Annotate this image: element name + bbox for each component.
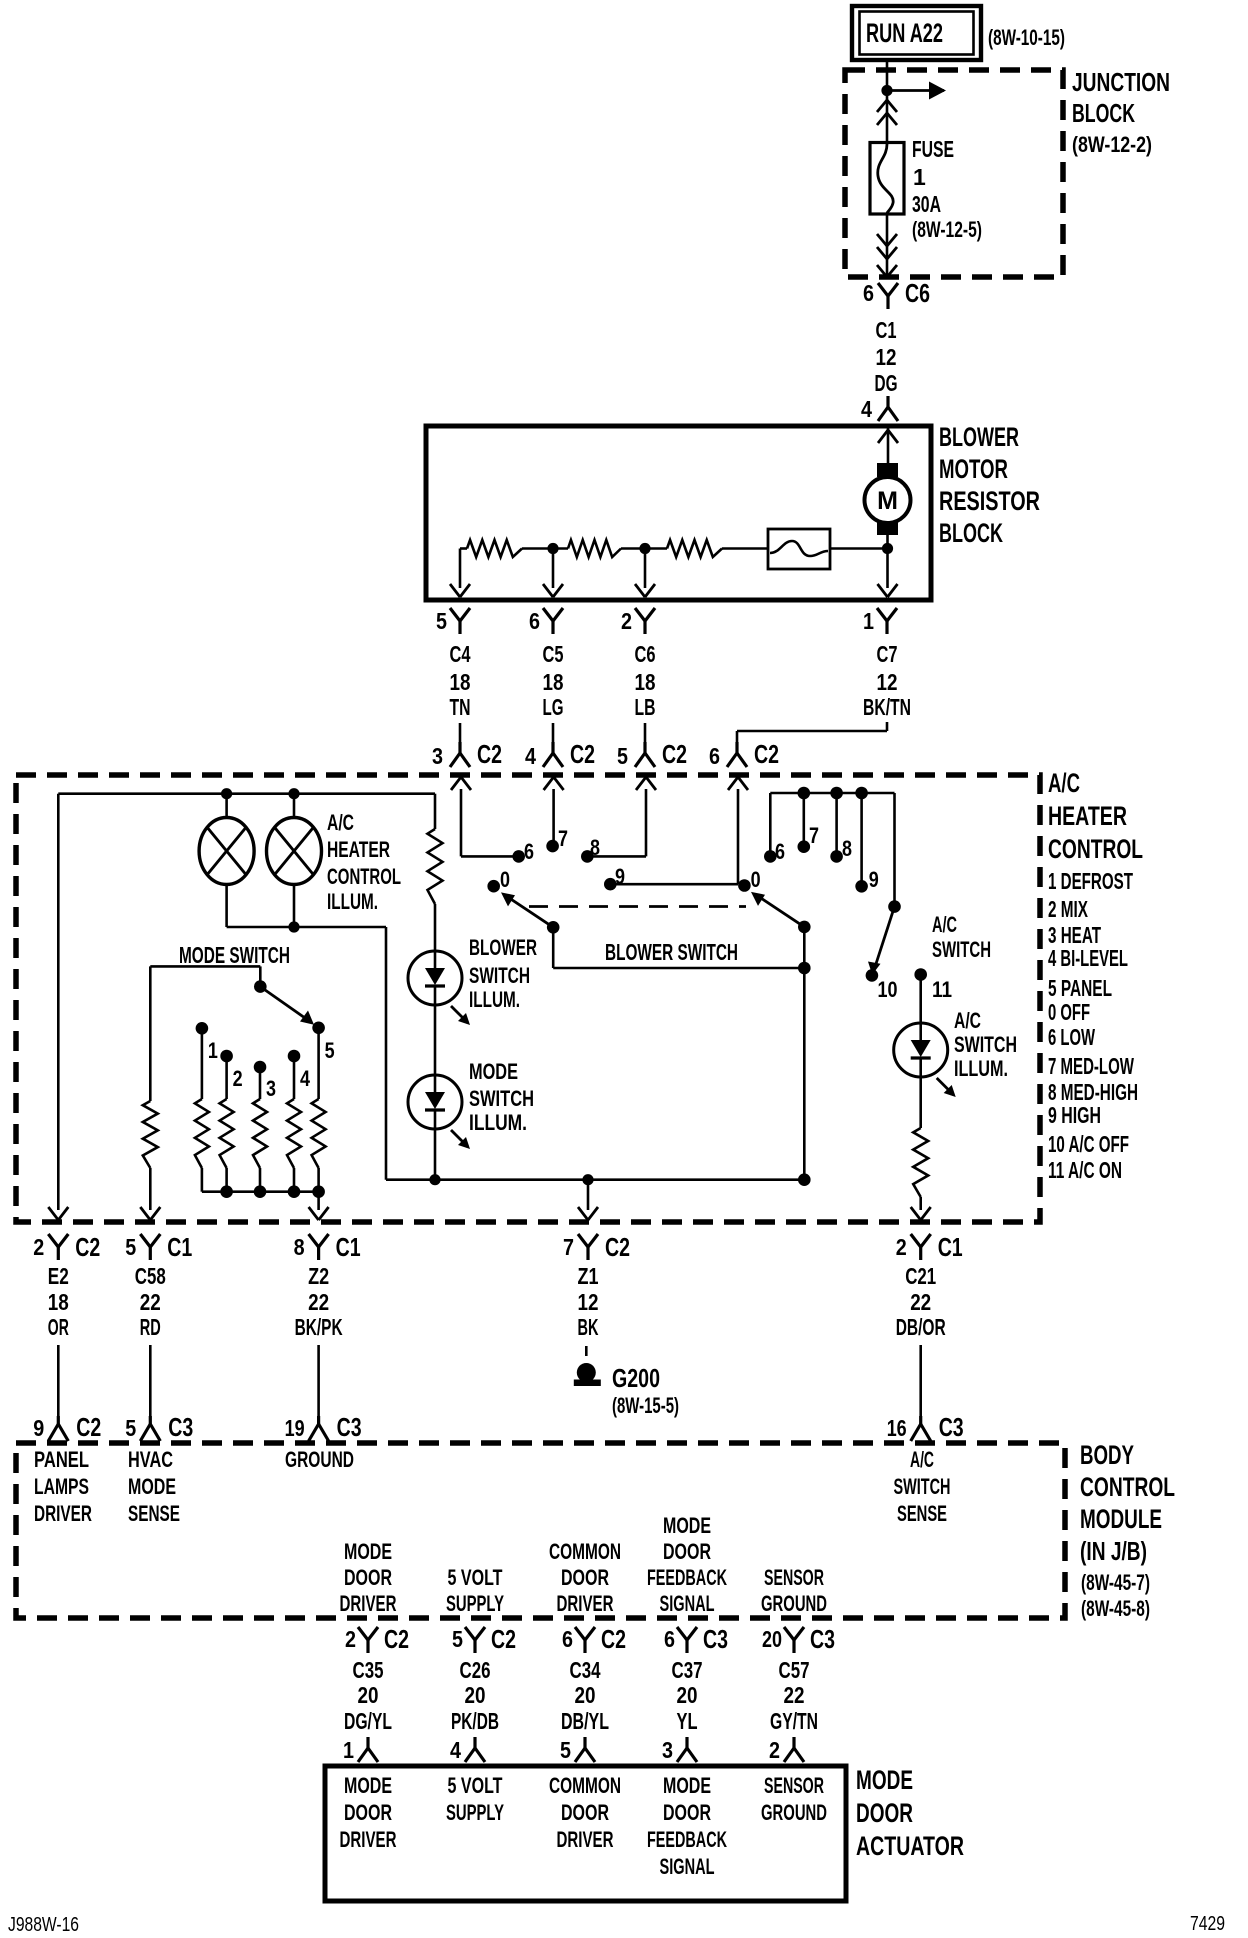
- svg-text:4: 4: [525, 743, 536, 769]
- svg-text:12: 12: [877, 669, 898, 695]
- svg-text:(8W-12-5): (8W-12-5): [912, 217, 982, 242]
- svg-text:A/C: A/C: [910, 1447, 934, 1472]
- svg-text:C34: C34: [570, 1657, 601, 1683]
- svg-text:5: 5: [560, 1737, 571, 1763]
- svg-text:11: 11: [932, 977, 952, 1002]
- svg-text:DRIVER: DRIVER: [340, 1827, 397, 1852]
- svg-text:C2: C2: [662, 739, 687, 769]
- svg-text:BLOWER: BLOWER: [469, 935, 537, 960]
- svg-text:DB/OR: DB/OR: [896, 1314, 946, 1340]
- svg-text:FEEDBACK: FEEDBACK: [647, 1827, 727, 1852]
- svg-text:ILLUM.: ILLUM.: [469, 1110, 527, 1135]
- svg-text:4: 4: [861, 396, 872, 422]
- svg-text:CONTROL: CONTROL: [327, 864, 401, 889]
- svg-text:E2: E2: [48, 1263, 69, 1289]
- svg-text:1: 1: [863, 608, 874, 634]
- svg-text:DG/YL: DG/YL: [344, 1708, 392, 1734]
- svg-text:ACTUATOR: ACTUATOR: [856, 1831, 964, 1861]
- svg-text:ILLUM.: ILLUM.: [954, 1056, 1008, 1081]
- svg-text:7: 7: [809, 823, 819, 848]
- svg-text:MODE SWITCH: MODE SWITCH: [179, 942, 290, 968]
- svg-text:JUNCTION: JUNCTION: [1072, 67, 1170, 97]
- svg-text:DB/YL: DB/YL: [561, 1708, 609, 1734]
- svg-text:HEATER: HEATER: [327, 837, 390, 862]
- svg-text:SUPPLY: SUPPLY: [446, 1800, 504, 1825]
- svg-text:5: 5: [617, 743, 628, 769]
- svg-text:C57: C57: [779, 1657, 810, 1683]
- svg-text:2: 2: [621, 608, 632, 634]
- svg-text:8: 8: [590, 835, 600, 860]
- svg-text:SIGNAL: SIGNAL: [660, 1854, 715, 1879]
- svg-text:9 HIGH: 9 HIGH: [1048, 1102, 1101, 1128]
- svg-text:12: 12: [578, 1289, 599, 1315]
- svg-text:1: 1: [208, 1038, 218, 1063]
- svg-text:LG: LG: [543, 694, 564, 720]
- svg-text:C2: C2: [491, 1624, 516, 1654]
- svg-text:A/C: A/C: [932, 912, 957, 937]
- svg-text:C6: C6: [905, 278, 930, 308]
- svg-text:MODE: MODE: [128, 1474, 176, 1499]
- svg-text:GROUND: GROUND: [761, 1800, 827, 1825]
- svg-text:DOOR: DOOR: [344, 1800, 392, 1825]
- svg-text:C2: C2: [605, 1232, 630, 1262]
- svg-text:SENSE: SENSE: [897, 1501, 947, 1526]
- svg-text:5 VOLT: 5 VOLT: [448, 1773, 503, 1798]
- svg-text:SUPPLY: SUPPLY: [446, 1591, 504, 1616]
- svg-text:BK: BK: [578, 1314, 599, 1340]
- svg-text:C1: C1: [336, 1232, 361, 1262]
- svg-text:FUSE: FUSE: [912, 136, 954, 162]
- svg-text:SENSE: SENSE: [128, 1501, 180, 1526]
- svg-text:DRIVER: DRIVER: [557, 1827, 614, 1852]
- svg-text:BLOWER SWITCH: BLOWER SWITCH: [605, 939, 738, 965]
- svg-text:20: 20: [358, 1682, 379, 1708]
- svg-text:COMMON: COMMON: [549, 1539, 621, 1564]
- svg-text:10: 10: [878, 977, 898, 1002]
- svg-text:HEATER: HEATER: [1048, 801, 1127, 831]
- svg-text:C3: C3: [810, 1624, 835, 1654]
- svg-text:LAMPS: LAMPS: [34, 1474, 89, 1499]
- svg-text:C3: C3: [168, 1412, 193, 1442]
- svg-text:SWITCH: SWITCH: [469, 963, 530, 988]
- svg-text:BK/PK: BK/PK: [295, 1314, 343, 1340]
- svg-text:C1: C1: [938, 1232, 963, 1262]
- svg-text:SENSOR: SENSOR: [764, 1773, 824, 1798]
- svg-text:5: 5: [325, 1038, 335, 1063]
- svg-text:FEEDBACK: FEEDBACK: [647, 1565, 727, 1590]
- svg-text:M: M: [877, 487, 898, 515]
- svg-text:20: 20: [465, 1682, 486, 1708]
- svg-text:DOOR: DOOR: [561, 1565, 609, 1590]
- svg-text:C2: C2: [384, 1624, 409, 1654]
- svg-text:C6: C6: [635, 641, 656, 667]
- svg-text:BLOWER: BLOWER: [939, 422, 1019, 452]
- svg-text:MODE: MODE: [344, 1539, 392, 1564]
- svg-text:(8W-10-15): (8W-10-15): [988, 25, 1065, 50]
- svg-text:SWITCH: SWITCH: [894, 1474, 951, 1499]
- svg-text:SWITCH: SWITCH: [954, 1032, 1017, 1057]
- svg-text:DOOR: DOOR: [663, 1800, 711, 1825]
- svg-text:A/C: A/C: [1048, 768, 1080, 798]
- svg-text:20: 20: [677, 1682, 698, 1708]
- svg-text:DRIVER: DRIVER: [340, 1591, 397, 1616]
- svg-text:8: 8: [842, 836, 852, 861]
- svg-text:RD: RD: [140, 1314, 161, 1340]
- svg-text:A/C: A/C: [954, 1008, 981, 1033]
- svg-text:0 OFF: 0 OFF: [1048, 999, 1090, 1025]
- svg-text:C2: C2: [754, 739, 779, 769]
- svg-text:5: 5: [452, 1626, 463, 1652]
- svg-text:20: 20: [762, 1626, 782, 1652]
- svg-text:18: 18: [543, 669, 564, 695]
- svg-text:HVAC: HVAC: [128, 1447, 173, 1472]
- svg-text:9: 9: [33, 1415, 44, 1441]
- svg-text:GROUND: GROUND: [761, 1591, 827, 1616]
- svg-text:6: 6: [863, 280, 874, 306]
- svg-text:SWITCH: SWITCH: [469, 1086, 534, 1111]
- svg-text:DOOR: DOOR: [344, 1565, 392, 1590]
- svg-text:PANEL: PANEL: [34, 1447, 89, 1472]
- svg-text:DOOR: DOOR: [663, 1539, 711, 1564]
- svg-text:ILLUM.: ILLUM.: [327, 889, 378, 914]
- svg-text:6: 6: [775, 839, 785, 864]
- svg-text:SIGNAL: SIGNAL: [660, 1591, 715, 1616]
- svg-text:4: 4: [300, 1066, 311, 1091]
- svg-text:1: 1: [913, 164, 926, 190]
- svg-text:(8W-45-8): (8W-45-8): [1081, 1596, 1150, 1621]
- svg-text:BK/TN: BK/TN: [863, 694, 911, 720]
- svg-text:7 MED-LOW: 7 MED-LOW: [1048, 1053, 1134, 1079]
- svg-text:C35: C35: [353, 1657, 384, 1683]
- svg-text:ILLUM.: ILLUM.: [469, 987, 520, 1012]
- svg-text:C3: C3: [703, 1624, 728, 1654]
- svg-text:(8W-45-7): (8W-45-7): [1081, 1570, 1150, 1595]
- svg-text:CONTROL: CONTROL: [1080, 1472, 1175, 1502]
- svg-text:SENSOR: SENSOR: [764, 1565, 824, 1590]
- svg-text:C2: C2: [477, 739, 502, 769]
- svg-text:C2: C2: [570, 739, 595, 769]
- svg-text:1 DEFROST: 1 DEFROST: [1048, 868, 1133, 894]
- svg-text:C2: C2: [75, 1232, 100, 1262]
- svg-text:6: 6: [562, 1626, 573, 1652]
- svg-text:3: 3: [432, 743, 443, 769]
- svg-text:5 VOLT: 5 VOLT: [448, 1565, 503, 1590]
- svg-text:MODE: MODE: [856, 1765, 913, 1795]
- svg-text:18: 18: [635, 669, 656, 695]
- svg-text:(8W-12-2): (8W-12-2): [1072, 132, 1152, 157]
- svg-text:YL: YL: [677, 1708, 698, 1734]
- svg-text:GROUND: GROUND: [285, 1447, 354, 1472]
- svg-text:C21: C21: [905, 1263, 936, 1289]
- svg-text:20: 20: [575, 1682, 596, 1708]
- svg-text:12: 12: [876, 344, 897, 370]
- svg-text:7: 7: [558, 826, 568, 851]
- svg-text:C1: C1: [167, 1232, 192, 1262]
- svg-text:30A: 30A: [912, 191, 941, 217]
- svg-text:19: 19: [285, 1415, 305, 1441]
- svg-text:0: 0: [751, 867, 761, 892]
- svg-text:DG: DG: [875, 370, 898, 396]
- svg-text:5: 5: [125, 1234, 136, 1260]
- svg-text:LB: LB: [635, 694, 656, 720]
- svg-text:18: 18: [450, 669, 471, 695]
- svg-text:MODE: MODE: [663, 1773, 711, 1798]
- svg-text:C37: C37: [672, 1657, 703, 1683]
- svg-text:2: 2: [896, 1234, 907, 1260]
- svg-text:2: 2: [769, 1737, 780, 1763]
- svg-text:RESISTOR: RESISTOR: [939, 486, 1040, 516]
- svg-text:2 MIX: 2 MIX: [1048, 896, 1088, 922]
- svg-text:A/C: A/C: [327, 810, 354, 835]
- svg-text:5 PANEL: 5 PANEL: [1048, 975, 1112, 1001]
- svg-text:(8W-15-5): (8W-15-5): [612, 1393, 679, 1418]
- svg-text:C4: C4: [450, 641, 471, 667]
- svg-text:8: 8: [294, 1234, 305, 1260]
- svg-text:16: 16: [887, 1415, 907, 1441]
- svg-text:CONTROL: CONTROL: [1048, 834, 1143, 864]
- svg-text:22: 22: [308, 1289, 329, 1315]
- svg-text:J988W-16: J988W-16: [8, 1914, 79, 1936]
- svg-text:6: 6: [709, 743, 720, 769]
- svg-text:BODY: BODY: [1080, 1440, 1134, 1470]
- svg-text:DRIVER: DRIVER: [34, 1501, 92, 1526]
- svg-text:BLOCK: BLOCK: [939, 518, 1003, 548]
- svg-text:7429: 7429: [1190, 1913, 1225, 1935]
- svg-text:Z1: Z1: [578, 1263, 599, 1289]
- svg-text:3: 3: [266, 1076, 276, 1101]
- svg-text:0: 0: [500, 867, 510, 892]
- svg-text:C7: C7: [877, 641, 898, 667]
- svg-text:22: 22: [910, 1289, 931, 1315]
- svg-text:BLOCK: BLOCK: [1072, 98, 1135, 128]
- svg-text:C2: C2: [601, 1624, 626, 1654]
- svg-text:6: 6: [664, 1626, 675, 1652]
- svg-text:G200: G200: [612, 1363, 660, 1393]
- svg-text:2: 2: [345, 1626, 356, 1652]
- svg-text:6 LOW: 6 LOW: [1048, 1024, 1095, 1050]
- svg-text:TN: TN: [450, 694, 471, 720]
- svg-text:MODE: MODE: [469, 1059, 518, 1084]
- svg-text:C2: C2: [76, 1412, 101, 1442]
- svg-text:MODE: MODE: [344, 1773, 392, 1798]
- svg-text:C3: C3: [337, 1412, 362, 1442]
- svg-text:MOTOR: MOTOR: [939, 454, 1008, 484]
- svg-text:C26: C26: [460, 1657, 491, 1683]
- svg-text:(IN J/B): (IN J/B): [1080, 1536, 1147, 1566]
- svg-text:C5: C5: [543, 641, 564, 667]
- svg-text:OR: OR: [48, 1314, 69, 1340]
- svg-text:7: 7: [563, 1234, 574, 1260]
- svg-text:DOOR: DOOR: [561, 1800, 609, 1825]
- svg-text:RUN A22: RUN A22: [866, 18, 943, 48]
- svg-text:4: 4: [450, 1737, 461, 1763]
- svg-text:9: 9: [615, 864, 625, 889]
- svg-text:2: 2: [33, 1234, 44, 1260]
- svg-text:GY/TN: GY/TN: [770, 1708, 818, 1734]
- svg-text:22: 22: [140, 1289, 161, 1315]
- svg-text:3: 3: [662, 1737, 673, 1763]
- svg-text:C1: C1: [876, 317, 897, 343]
- svg-text:4 BI-LEVEL: 4 BI-LEVEL: [1048, 945, 1128, 971]
- svg-text:6: 6: [524, 839, 534, 864]
- svg-text:C58: C58: [135, 1263, 166, 1289]
- svg-text:9: 9: [869, 867, 879, 892]
- svg-text:5: 5: [436, 608, 447, 634]
- svg-text:11 A/C ON: 11 A/C ON: [1048, 1157, 1122, 1183]
- svg-text:C3: C3: [939, 1412, 964, 1442]
- svg-text:2: 2: [233, 1066, 243, 1091]
- svg-text:1: 1: [343, 1737, 354, 1763]
- svg-text:22: 22: [784, 1682, 805, 1708]
- svg-text:18: 18: [48, 1289, 69, 1315]
- svg-text:MODULE: MODULE: [1080, 1504, 1162, 1534]
- svg-text:COMMON: COMMON: [549, 1773, 621, 1798]
- svg-text:MODE: MODE: [663, 1513, 711, 1538]
- svg-text:5: 5: [125, 1415, 136, 1441]
- svg-text:DOOR: DOOR: [856, 1798, 913, 1828]
- svg-text:6: 6: [529, 608, 540, 634]
- svg-text:PK/DB: PK/DB: [451, 1708, 499, 1734]
- svg-text:Z2: Z2: [308, 1263, 329, 1289]
- svg-text:DRIVER: DRIVER: [557, 1591, 614, 1616]
- svg-text:10 A/C OFF: 10 A/C OFF: [1048, 1131, 1129, 1157]
- svg-text:SWITCH: SWITCH: [932, 937, 991, 962]
